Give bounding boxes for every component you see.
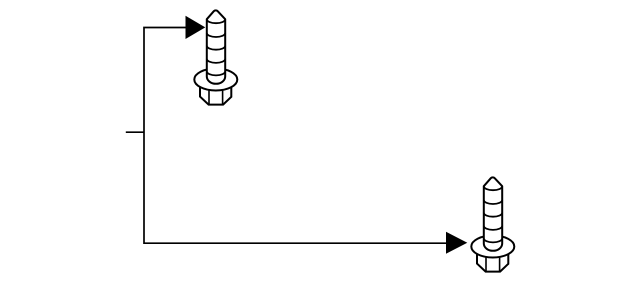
leader tick (126, 131, 144, 133)
bolt 1 (top) (194, 10, 237, 104)
arrowhead 2 (446, 232, 467, 254)
leader polyline (144, 28, 449, 244)
arrowhead 1 (186, 16, 206, 39)
bolt 2 (bottom right) (471, 177, 514, 271)
